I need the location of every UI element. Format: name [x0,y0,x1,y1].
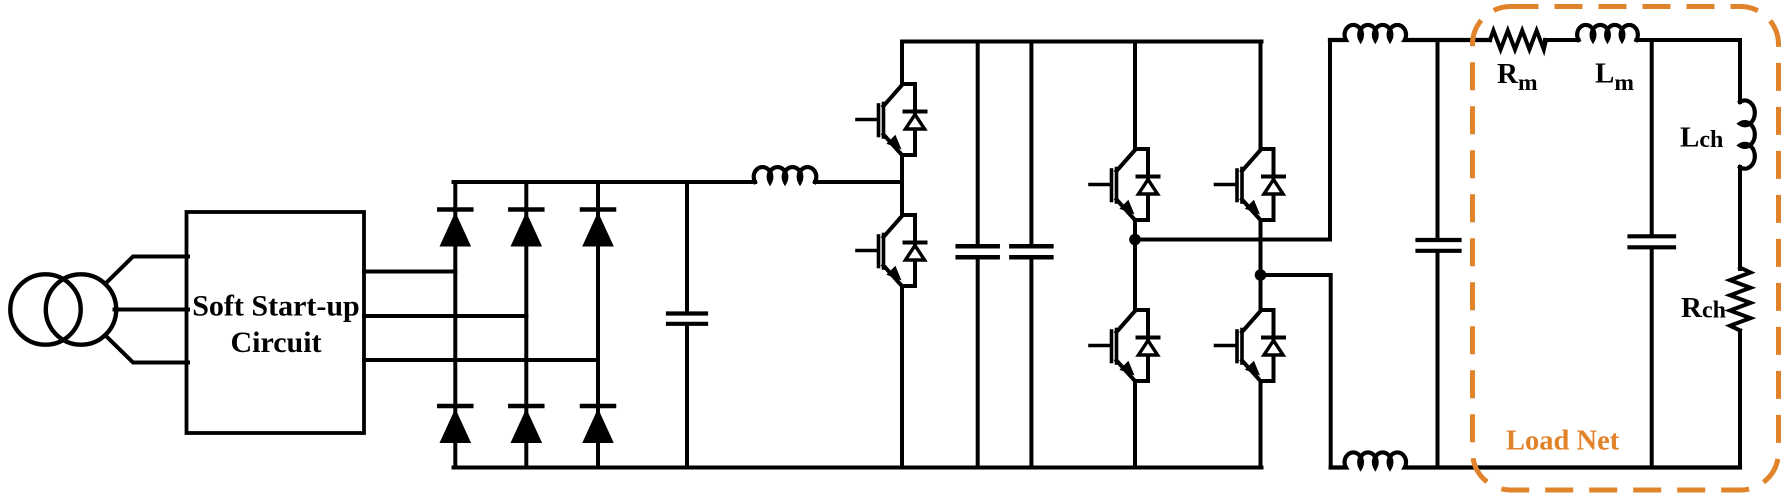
load net dashed boundary [1473,7,1779,491]
capacitor C1 leg top [685,182,689,312]
capacitor C5 (load) leg [1650,40,1654,468]
capacitor C2 plates [958,244,998,249]
svg-text:Lm: Lm [1595,58,1634,97]
capacitor C5 plates [1630,234,1675,238]
capacitor C4 plates [1418,238,1460,242]
IGBT Q4 (full-bridge bottom-left) [1090,310,1159,381]
wire rectifier leg 3 [596,182,600,468]
diode D1 (leg1 top) [439,210,471,247]
wire output lower [1261,275,1331,468]
IGBT Q5 (full-bridge top-right) [1216,149,1285,220]
capacitor C1 plates [668,311,706,315]
resistor Rm [1490,31,1546,50]
svg-text:Rm: Rm [1497,58,1538,96]
capacitor C2 leg [976,42,980,468]
inductor L1 (boost) [754,167,817,182]
diode D2 (leg2 top) [510,210,542,247]
wire Lch to Rch [1738,167,1742,269]
soft start-up box U1 [187,212,365,433]
capacitor C4 (filter) leg [1436,40,1440,468]
wire right branch top [1738,40,1742,102]
IGBT Q2 (half-bridge bottom) [857,215,926,286]
inductor Lm [1577,25,1638,40]
inductor L2 (filter top) [1330,25,1490,40]
diode D5 (leg2 bottom) [510,406,542,443]
diode D4 (leg1 bottom) [439,406,471,443]
IGBT Q1 (half-bridge top) [857,84,926,155]
transformer T1 [10,274,116,344]
diode D6 (leg3 bottom) [582,406,614,443]
svg-text:Rch: Rch [1681,292,1726,324]
IGBT Q3 (full-bridge top-left) [1090,149,1159,220]
wire top DC rail [902,40,1262,44]
wire half-bridge leg [900,42,904,468]
wire rectifier leg 2 [524,182,528,468]
node B (right leg midpoint dot) [1255,269,1267,281]
svg-text:Load Net: Load Net [1506,426,1620,457]
wire rectifier leg 1 [453,182,457,468]
wire right branch bottom [1738,331,1742,468]
wire transformer top phase [105,257,188,285]
wire transformer bottom phase [105,335,188,363]
svg-text:Lch: Lch [1680,122,1723,154]
wire rectifier top rail [454,180,756,184]
svg-text:Soft Start-up: Soft Start-up [192,290,360,323]
capacitor C3 plates [1011,244,1051,249]
svg-text:Circuit: Circuit [230,326,321,359]
wire Lm to right branch [1637,38,1741,42]
IGBT Q6 (full-bridge bottom-right) [1216,310,1285,381]
wire phase A to rectifier [364,270,455,274]
wire bottom rail [454,466,1262,470]
wire transformer mid phase [115,308,189,312]
inductor L3 (filter bottom) [1331,452,1740,467]
capacitor C1 leg bottom [685,326,689,468]
wire full-bridge right leg [1259,42,1263,468]
wire phase C to rectifier [364,358,598,362]
wire full-bridge left leg [1133,42,1137,468]
wire output upper [1135,40,1330,240]
diode D3 (leg3 top) [582,210,614,247]
wire L1 to half-bridge [815,180,902,184]
node A (left leg midpoint dot) [1129,234,1141,246]
resistor Rch [1730,268,1751,331]
capacitor C3 leg [1029,42,1033,468]
wire Rm to Lm [1545,38,1579,42]
inductor Lch [1740,100,1755,168]
wire phase B to rectifier [364,314,526,318]
